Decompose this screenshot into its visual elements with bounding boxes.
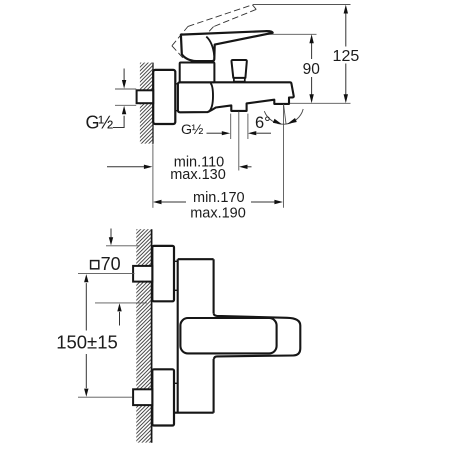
svg-text:6°: 6° <box>255 114 271 132</box>
svg-text:max.130: max.130 <box>170 167 226 183</box>
svg-text:150±15: 150±15 <box>56 332 118 353</box>
svg-text:G½: G½ <box>86 113 114 133</box>
svg-text:70: 70 <box>101 254 121 274</box>
svg-text:G½: G½ <box>181 122 204 138</box>
svg-text:min.170: min.170 <box>193 190 245 206</box>
svg-text:90: 90 <box>303 61 321 78</box>
svg-text:max.190: max.190 <box>190 205 246 221</box>
svg-text:125: 125 <box>333 48 360 65</box>
